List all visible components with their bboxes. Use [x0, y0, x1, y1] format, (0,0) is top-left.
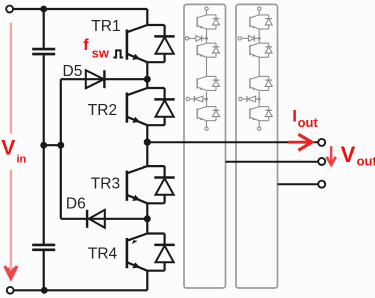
wire top DC+ rail — [13, 8, 147, 10]
freewheel diode of TR1 — [154, 25, 174, 62]
mini wire segments M3 — [258, 10, 260, 127]
wire output phase 1 — [147, 141, 318, 143]
wire output phase 2 — [226, 161, 319, 163]
mini clamp diode D5 M3 — [238, 36, 261, 42]
mini diode of M2-T2 — [213, 43, 220, 57]
node D6 junction — [144, 215, 151, 222]
capacitor C1 — [32, 49, 55, 54]
svg-text:TR1: TR1 — [91, 18, 120, 35]
transistor TR3 — [127, 166, 165, 203]
wire DC link rail lower — [43, 251, 45, 290]
wire TR3-TR4 link — [146, 203, 148, 233]
mini transistor M3-T1 — [250, 15, 269, 29]
mini transistor M2-T1 — [197, 15, 216, 29]
terminal output 1 — [318, 139, 325, 146]
svg-text:V: V — [1, 136, 15, 159]
wire DC link rail upper — [43, 9, 45, 48]
transistor TR2 — [127, 88, 165, 125]
mini diode of M3-T4 — [265, 107, 272, 121]
transistor TR1 — [127, 25, 165, 62]
mini transistor M3-T4 — [250, 107, 269, 121]
node top tee junction — [40, 6, 47, 13]
mini clamp diode D6 M2 — [186, 96, 208, 102]
wire neutral vertical — [60, 79, 62, 219]
wire collector lead TR1 — [146, 9, 148, 25]
wire DC link rail middle — [43, 55, 45, 244]
terminal DC plus (top left) — [6, 6, 13, 13]
mini diode of M2-T4 — [213, 107, 220, 121]
arrow Vin stem lower — [10, 170, 12, 271]
parallel module box M3 — [236, 4, 278, 288]
wire output phase 3 — [278, 183, 319, 185]
node D5 junction — [144, 76, 151, 83]
mini transistor M3-T3 — [250, 76, 269, 90]
svg-text:TR4: TR4 — [88, 246, 118, 263]
node neutral on rail — [40, 142, 47, 149]
node bottom tee junction — [41, 287, 48, 294]
svg-text:sw: sw — [92, 45, 110, 60]
freewheel diode of TR2 — [154, 88, 174, 125]
transistor TR4 — [127, 234, 165, 271]
mini bottom terminal M3 — [258, 127, 261, 130]
svg-text:out: out — [298, 115, 319, 130]
diode D6 — [87, 210, 105, 228]
mini bottom terminal M2 — [205, 127, 208, 130]
wire bottom DC- rail — [14, 289, 148, 291]
mini diode of M3-T1 — [265, 15, 272, 29]
pulse symbol gate TR1 — [113, 50, 123, 57]
mini diode of M2-T1 — [213, 15, 220, 29]
arrow Vin stem upper — [10, 23, 12, 134]
svg-text:V: V — [341, 142, 356, 167]
terminal output 3 — [318, 181, 325, 188]
node output junction — [144, 139, 151, 146]
diode D5 — [86, 70, 105, 88]
node neutral branch — [57, 142, 64, 149]
wire clamp D5 — [61, 78, 148, 80]
capacitor C2 — [32, 245, 55, 250]
arrow collector TR3 — [143, 166, 147, 169]
mini clamp diode D6 M3 — [239, 96, 261, 102]
terminal DC minus (bottom left) — [7, 287, 14, 294]
mini diode of M2-T3 — [213, 76, 220, 90]
wire clamp D6 — [61, 218, 148, 220]
mini top terminal M2 — [205, 7, 208, 10]
arrow collector TR4 — [132, 240, 138, 244]
svg-text:TR3: TR3 — [91, 175, 120, 192]
mini transistor M2-T3 — [197, 76, 216, 90]
wire TR1-TR2 link — [146, 62, 148, 88]
freewheel diode of TR3 — [154, 166, 174, 203]
terminal output 2 — [318, 158, 325, 165]
svg-text:I: I — [292, 107, 297, 126]
arrow Vout — [327, 146, 336, 165]
mini transistor M2-T2 — [197, 43, 216, 57]
wire TR2-TR3 link — [146, 125, 148, 166]
mini clamp diode D5 M2 — [185, 36, 208, 42]
arrow Iout — [288, 134, 312, 150]
wire neutral tee — [44, 144, 61, 146]
mini transistor M2-T4 — [197, 107, 216, 121]
mini transistor M3-T2 — [250, 43, 269, 57]
mini wire segments M2 — [206, 10, 208, 127]
parallel module box M2 — [184, 4, 226, 288]
freewheel diode of TR4 — [154, 234, 174, 271]
svg-text:f: f — [83, 37, 89, 54]
svg-text:out: out — [357, 154, 375, 169]
mini diode of M3-T2 — [265, 43, 272, 57]
mini diode of M3-T3 — [265, 76, 272, 90]
svg-text:D6: D6 — [66, 195, 86, 212]
arrow Vin head — [5, 266, 17, 278]
svg-text:D5: D5 — [63, 63, 83, 80]
svg-text:in: in — [17, 154, 27, 166]
mini top terminal M3 — [258, 7, 261, 10]
svg-text:TR2: TR2 — [88, 102, 117, 119]
wire emitter lead TR4 — [146, 271, 148, 291]
